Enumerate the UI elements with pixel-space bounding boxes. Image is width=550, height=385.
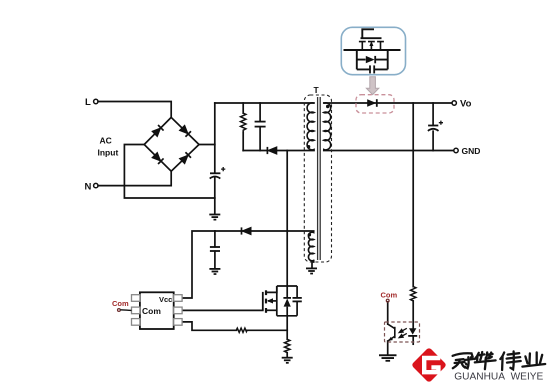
wire gate from IC [183,309,263,311]
output diode D3 [367,99,376,107]
svg-text:AC: AC [100,136,112,146]
bridge diode D-topright [179,125,191,137]
aux winding ground [306,268,317,275]
SR channel main line [344,49,401,51]
svg-text:Com: Com [381,291,398,300]
Com terminal circle [118,309,121,312]
svg-text:GUANHUA WEIYE: GUANHUA WEIYE [454,370,543,382]
primary phase dot [307,145,310,148]
logo Chinese characters [453,351,546,370]
wire main + vertical [214,103,216,214]
svg-text:Com: Com [112,299,129,308]
wire source down [286,316,288,340]
opto LED [409,328,416,334]
feedback resistor R4 [411,287,416,301]
bridge rectifier diamond [144,117,199,171]
terminal GND [454,148,458,152]
aux diode D2 [242,227,251,234]
bridge diode D-topleft [152,125,164,137]
MOSFET Q1 gate bar [262,292,264,311]
bridge diode D-bottomright [179,152,191,164]
svg-text:Vcc: Vcc [159,295,172,304]
SR cap branch [357,68,388,70]
terminal N [94,183,98,187]
wire feedback vertical from Vo [412,103,414,287]
SR contact caps [359,41,384,43]
optocoupler dashed box [385,322,420,342]
opto light arrows [398,328,406,339]
aux cap ground [209,268,220,275]
terminal L [94,99,98,103]
transformer core [317,97,319,260]
LED cathode stub [412,336,414,344]
wire secondary top rail to Vo [324,102,452,104]
aux Vcc cap C3 [210,247,220,251]
wire CS from IC [183,322,287,330]
wire aux winding to ground [312,261,314,268]
snubber node rail [243,150,267,152]
CS resistor R2 (horizontal) [236,328,247,332]
primary ground (bulk) [209,214,220,221]
aux phase dot [308,233,311,236]
opto Com terminal circle [386,299,389,302]
wire secondary bottom GND rail [324,150,454,152]
snubber resistor R1 [241,113,246,132]
sense resistor lead to ground [286,353,288,357]
transformer dashed box [304,95,331,262]
Q1 body diode [283,297,291,299]
Q1 source stub [267,309,277,311]
wire primary bottom rail [277,150,314,152]
aux winding [308,232,313,261]
controller IC U1 body [140,292,174,329]
Q1 output capacitance [296,286,298,316]
svg-text:Com: Com [142,306,161,316]
SR diode [366,56,375,63]
opto emitter wire to ground [387,341,389,354]
output cap leads [432,103,434,151]
svg-text:Input: Input [98,148,119,158]
grey arrow [366,77,378,95]
logo G [424,358,440,372]
bridge diode D-bottomleft [152,152,164,164]
Q1 body stub with arrow [268,300,277,302]
wire top rail [215,102,314,104]
wire bridge left vertex to ground rail [124,145,214,199]
svg-text:T: T [314,85,320,95]
blue callout box (SR MOSFET) [341,27,405,74]
snubber resistor leads [242,103,244,151]
snubber capacitor C2 [255,122,266,127]
opto ground [379,354,397,361]
sense resistor R3 (vertical) [285,339,290,352]
opto transistor [388,324,395,341]
secondary phase dot [326,105,329,108]
logo red diamond [411,347,447,383]
svg-text:N: N [85,182,92,193]
snubber diode D1 [268,147,277,154]
bulk capacitor C1 (polarized) [210,167,226,179]
Q1 channel ticks [265,290,267,313]
opto collector wire [387,302,389,324]
Q1 drain stub [267,286,277,292]
secondary winding [324,103,331,151]
sense ground [282,357,293,364]
output diode dashed box [356,95,394,113]
IC pins left [132,295,183,326]
terminal Vo [452,101,456,105]
SR contact stubs [362,42,380,50]
SR body arrow [369,41,373,46]
svg-text:L: L [85,97,91,108]
wire Com to pin [120,309,131,312]
SR gate lead [362,29,374,38]
SR cap plates [369,65,371,73]
SR gate plate [361,37,382,39]
IC pins right [174,295,182,302]
aux cap leads [214,231,216,268]
primary winding [307,103,314,151]
Q1 package box [277,286,297,316]
snubber capacitor C leads [259,103,261,151]
opto emitter arrow [387,337,393,343]
wire L to bridge top [98,102,171,118]
wire drain vertical [286,151,288,287]
wire Vcc rail (aux) [182,231,313,298]
output cap C4 (polarized) [428,121,443,131]
svg-text:Vo: Vo [460,99,472,110]
wire N to bridge bottom [98,171,171,185]
feedback resistor lower lead [412,301,414,328]
wire bridge right vertex to + rail [199,144,215,146]
SR diode branch [357,50,388,69]
svg-text:GND: GND [462,146,481,156]
